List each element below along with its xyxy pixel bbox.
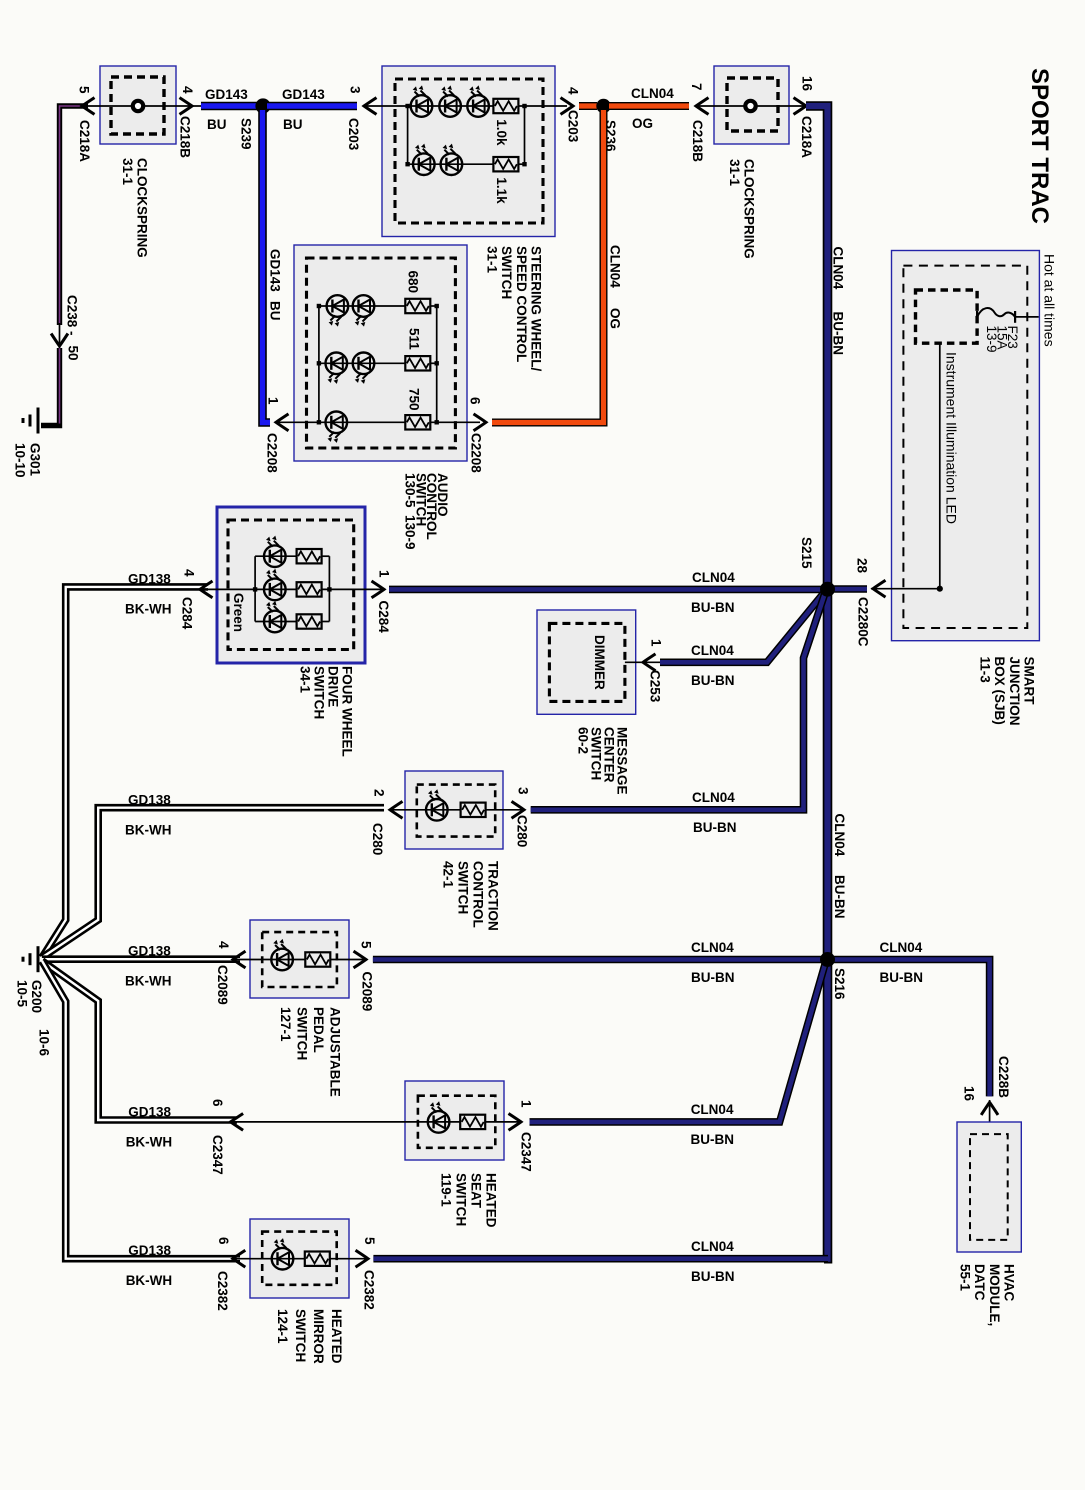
svg-text:BU-BN: BU-BN bbox=[831, 312, 846, 356]
smart junction box (SJB) bbox=[892, 251, 1040, 641]
svg-text:Instrument Illumination LED: Instrument Illumination LED bbox=[944, 352, 960, 524]
svg-text:1: 1 bbox=[649, 639, 664, 647]
svg-text:16: 16 bbox=[962, 1086, 977, 1102]
svg-text:SWITCH: SWITCH bbox=[293, 1309, 308, 1362]
wire GD138 BK-WH adjustable pedal switch to G200 bbox=[42, 955, 240, 963]
wire CLN04 BU-BN dimmer to S215 bbox=[660, 592, 825, 663]
steering switch internal wiring bbox=[407, 106, 409, 164]
svg-text:C238 -: C238 - bbox=[65, 295, 80, 336]
svg-text:FOUR WHEEL: FOUR WHEEL bbox=[340, 666, 355, 757]
LED lamp heated seat bbox=[428, 1111, 450, 1133]
wire through pedal switch bbox=[233, 959, 305, 961]
splice S215 bbox=[820, 582, 835, 597]
heated mirror switch box bbox=[250, 1219, 349, 1298]
svg-text:CLN04: CLN04 bbox=[880, 940, 923, 955]
connector C218B pin 7 bbox=[696, 98, 709, 115]
svg-text:CLN04: CLN04 bbox=[631, 86, 674, 101]
svg-text:BK-WH: BK-WH bbox=[125, 602, 172, 617]
svg-text:GD138: GD138 bbox=[128, 1243, 171, 1258]
connector C2347 pin 6 bbox=[231, 1114, 244, 1131]
connector C2347 pin 1 bbox=[509, 1114, 522, 1131]
LED lamp 4WD row2 bbox=[264, 579, 286, 601]
svg-text:1: 1 bbox=[519, 1100, 534, 1108]
connector C218A pin 5 bbox=[82, 98, 95, 115]
LED lamp steering row2 a bbox=[413, 153, 435, 175]
svg-text:BU: BU bbox=[268, 301, 283, 321]
connector C203 pin 4 bbox=[561, 98, 574, 115]
svg-text:60-2: 60-2 bbox=[576, 727, 591, 754]
wire through traction switch bbox=[390, 809, 461, 811]
clockspring coil symbol 2 bbox=[745, 101, 755, 111]
wire CLN04 OG stub C203 to S236 bbox=[579, 102, 597, 110]
LED lamp pedal bbox=[271, 949, 293, 971]
svg-text:6: 6 bbox=[210, 1099, 225, 1107]
wire into steering switch bbox=[364, 105, 408, 107]
resistor 750 bbox=[405, 415, 430, 429]
svg-text:C2089: C2089 bbox=[215, 965, 230, 1005]
resistor 1.0k bbox=[493, 99, 518, 113]
wire GD138 BK-WH traction control switch to G200 bbox=[42, 808, 384, 958]
wire CLN04 BU-BN traction switch to S215 bbox=[531, 592, 826, 810]
wire CLN04 BU-BN bus C218A down to S215 bbox=[806, 106, 828, 585]
svg-text:SWITCH: SWITCH bbox=[499, 246, 514, 299]
svg-text:BU-BN: BU-BN bbox=[691, 673, 735, 688]
svg-text:BU-BN: BU-BN bbox=[691, 1269, 735, 1284]
LED lamp steering row2 b bbox=[441, 153, 463, 175]
wire CLN04 BU-BN four wheel drive switch to S215 bbox=[389, 586, 824, 594]
svg-text:C2208: C2208 bbox=[469, 433, 484, 473]
resistor heated seat bbox=[460, 1115, 485, 1129]
svg-text:BK-WH: BK-WH bbox=[125, 823, 172, 838]
wire GD138 BK-WH heated seat switch to G200 bbox=[42, 961, 237, 1120]
wire CLN04 BU-BN heated seat switch to S216 bbox=[530, 963, 826, 1122]
svg-text:BU-BN: BU-BN bbox=[832, 875, 847, 919]
svg-text:SEAT: SEAT bbox=[469, 1173, 484, 1209]
connector C280 pin 2 bbox=[390, 801, 403, 818]
svg-text:1.0k: 1.0k bbox=[494, 119, 509, 146]
svg-text:C2208: C2208 bbox=[265, 433, 280, 473]
LED lamp audio rowA b bbox=[353, 295, 375, 317]
connector C2089 pin 4 bbox=[233, 951, 246, 968]
svg-text:C253: C253 bbox=[648, 670, 663, 703]
wire through clockspring 2 bbox=[696, 105, 806, 107]
svg-text:511: 511 bbox=[407, 328, 422, 350]
wire through clockspring 1 bbox=[82, 105, 201, 107]
wire GD143 BU drop S239 to audio switch C2208 bbox=[263, 110, 271, 423]
heated seat switch box bbox=[405, 1081, 504, 1160]
svg-text:HEATED: HEATED bbox=[329, 1309, 344, 1364]
svg-text:CLN04: CLN04 bbox=[691, 643, 734, 658]
svg-text:STEERING WHEEL/: STEERING WHEEL/ bbox=[529, 246, 544, 372]
connector C2089 pin 5 bbox=[354, 951, 367, 968]
LED lamp 4WD row3 bbox=[264, 611, 286, 633]
svg-text:SWITCH: SWITCH bbox=[456, 861, 471, 914]
svg-text:CLN04: CLN04 bbox=[831, 247, 846, 290]
svg-text:7: 7 bbox=[689, 83, 704, 91]
svg-text:6: 6 bbox=[216, 1237, 231, 1245]
svg-text:BU: BU bbox=[207, 117, 227, 132]
svg-text:SWITCH: SWITCH bbox=[295, 1007, 310, 1060]
adjustable pedal switch box bbox=[250, 920, 349, 998]
svg-text:HEATED: HEATED bbox=[484, 1173, 499, 1228]
svg-text:119-1: 119-1 bbox=[439, 1173, 454, 1207]
wire SJB fuse to instrument illumination LED node bbox=[939, 343, 941, 589]
splice S236 bbox=[596, 99, 610, 113]
LED lamp 4WD row1 bbox=[264, 545, 286, 567]
svg-text:C2280C: C2280C bbox=[856, 597, 871, 647]
svg-text:BU-BN: BU-BN bbox=[691, 970, 735, 985]
svg-text:DATC: DATC bbox=[972, 1264, 987, 1301]
svg-text:S216: S216 bbox=[832, 968, 847, 1000]
clockspring coil symbol 1 bbox=[133, 101, 143, 111]
four wheel drive switch internal wiring bbox=[200, 588, 297, 590]
svg-text:TRACTION: TRACTION bbox=[486, 861, 501, 931]
svg-text:CLN04: CLN04 bbox=[832, 814, 847, 857]
svg-text:G200: G200 bbox=[29, 980, 44, 1013]
connector C2208 pin 6 bbox=[474, 414, 487, 431]
steering wheel/speed control switch box bbox=[382, 66, 555, 237]
svg-text:50: 50 bbox=[66, 346, 81, 361]
LED lamp audio rowA a bbox=[327, 295, 349, 317]
connector C2382 pin 5 bbox=[356, 1250, 369, 1267]
svg-text:1: 1 bbox=[377, 570, 392, 578]
svg-text:4: 4 bbox=[216, 941, 231, 949]
svg-text:5: 5 bbox=[359, 941, 374, 949]
wire CLN04 BU-BN bus S215 to S216 bbox=[823, 589, 833, 960]
wire into HVAC module bbox=[989, 1100, 991, 1134]
svg-text:3: 3 bbox=[516, 787, 531, 795]
connector C2382 pin 6 bbox=[233, 1250, 246, 1267]
connector C218A pin 16 bbox=[794, 98, 807, 115]
svg-text:C203: C203 bbox=[566, 110, 581, 143]
svg-text:11-3: 11-3 bbox=[977, 657, 992, 684]
svg-text:55-1: 55-1 bbox=[957, 1264, 972, 1292]
wire GD138 BK-WH heated mirror switch to G200 bbox=[42, 961, 240, 1259]
svg-text:C203: C203 bbox=[346, 118, 361, 151]
node SJB internal junction bbox=[937, 586, 943, 592]
LED lamp traction bbox=[426, 799, 448, 821]
traction control switch box bbox=[405, 771, 503, 849]
svg-text:750: 750 bbox=[407, 388, 422, 411]
svg-text:5: 5 bbox=[362, 1237, 377, 1245]
svg-text:GD138: GD138 bbox=[128, 1105, 171, 1120]
svg-text:1.1k: 1.1k bbox=[494, 177, 509, 204]
resistor heated mirror bbox=[305, 1252, 330, 1266]
four wheel drive switch box bbox=[217, 507, 365, 663]
svg-text:28: 28 bbox=[855, 558, 870, 574]
splice S239 bbox=[255, 98, 270, 113]
svg-text:S239: S239 bbox=[239, 118, 254, 150]
svg-text:ADJUSTABLE: ADJUSTABLE bbox=[328, 1007, 343, 1097]
svg-text:OG: OG bbox=[632, 116, 653, 131]
wire GD143 BK-VT from C218A to G301 bbox=[60, 106, 89, 325]
svg-text:BU-BN: BU-BN bbox=[880, 970, 924, 985]
svg-text:CLOCKSPRING: CLOCKSPRING bbox=[135, 158, 150, 258]
message center switch box bbox=[537, 610, 636, 714]
wire through heated mirror switch bbox=[233, 1258, 305, 1260]
svg-text:31-1: 31-1 bbox=[484, 246, 499, 274]
svg-text:C228B: C228B bbox=[996, 1056, 1011, 1098]
svg-text:10-5: 10-5 bbox=[15, 980, 30, 1008]
connector C253 pin 1 bbox=[643, 654, 656, 671]
LED lamp steering row1 c bbox=[467, 95, 489, 117]
resistor 4WD row2 bbox=[297, 582, 322, 596]
LED lamp audio rowB b bbox=[353, 353, 375, 375]
svg-text:BK-WH: BK-WH bbox=[126, 1273, 173, 1288]
splice S216 bbox=[820, 952, 835, 967]
svg-text:4: 4 bbox=[182, 569, 197, 577]
svg-text:BU-BN: BU-BN bbox=[691, 600, 735, 615]
svg-text:C2382: C2382 bbox=[215, 1271, 230, 1311]
svg-text:13-9: 13-9 bbox=[984, 326, 999, 353]
svg-text:127-1: 127-1 bbox=[278, 1007, 293, 1042]
svg-text:OG: OG bbox=[608, 308, 623, 329]
svg-text:4: 4 bbox=[566, 87, 581, 95]
svg-text:31-1: 31-1 bbox=[727, 159, 742, 187]
svg-text:GD138: GD138 bbox=[128, 793, 171, 808]
wire CLN04 OG S236 to C218B bbox=[609, 102, 689, 110]
svg-text:C280: C280 bbox=[370, 823, 385, 855]
svg-text:CLOCKSPRING: CLOCKSPRING bbox=[742, 159, 757, 259]
HVAC module box bbox=[957, 1122, 1021, 1252]
svg-text:4: 4 bbox=[180, 86, 195, 94]
svg-text:124-1: 124-1 bbox=[275, 1309, 290, 1344]
connector C228B pin 16 bbox=[981, 1102, 998, 1115]
clockspring box 31-1 right bbox=[714, 66, 789, 144]
svg-text:GD143: GD143 bbox=[205, 87, 248, 102]
audio switch internal wiring bbox=[276, 421, 405, 423]
connector C284 pin 1 bbox=[372, 581, 385, 598]
svg-text:BK-WH: BK-WH bbox=[125, 974, 172, 989]
svg-text:BU-BN: BU-BN bbox=[693, 820, 737, 835]
svg-text:C284: C284 bbox=[376, 601, 391, 634]
svg-text:GD143: GD143 bbox=[268, 249, 283, 292]
svg-text:Hot at all times: Hot at all times bbox=[1042, 254, 1058, 347]
wire GD143 BU segment S239 to C203 bbox=[267, 102, 357, 111]
LED lamp heated mirror bbox=[272, 1248, 294, 1270]
svg-text:BOX (SJB): BOX (SJB) bbox=[992, 657, 1007, 725]
svg-text:10-6: 10-6 bbox=[37, 1029, 52, 1057]
wire GD143 BU segment C218B to S239 bbox=[201, 102, 259, 111]
svg-text:CLN04: CLN04 bbox=[692, 790, 735, 805]
resistor 511 bbox=[405, 356, 430, 370]
svg-text:MIRROR: MIRROR bbox=[311, 1309, 326, 1364]
svg-text:31-1: 31-1 bbox=[120, 158, 135, 186]
wire CLN04 BU-BN bus S216 down to heated mirror run bbox=[824, 960, 828, 1259]
wire CLN04 BU-BN heated mirror switch to S216 bus bbox=[373, 1255, 828, 1263]
svg-text:C2089: C2089 bbox=[360, 972, 375, 1012]
svg-text:GD138: GD138 bbox=[128, 944, 171, 959]
svg-text:G301: G301 bbox=[28, 443, 43, 477]
wire dimmer to C253 bbox=[625, 661, 660, 663]
connector C2280C pin 28 bbox=[873, 580, 886, 597]
ground G200 bbox=[37, 946, 40, 972]
svg-text:CLN04: CLN04 bbox=[692, 570, 735, 585]
wire CLN04 OG drop S236 to audio switch C2208 bbox=[492, 110, 604, 423]
svg-text:SWITCH: SWITCH bbox=[312, 666, 327, 719]
LED lamp audio rowB a bbox=[326, 353, 348, 375]
svg-text:DRIVE: DRIVE bbox=[326, 666, 341, 707]
svg-text:BK-WH: BK-WH bbox=[126, 1135, 173, 1150]
svg-text:1: 1 bbox=[266, 397, 281, 405]
connector C284 pin 4 bbox=[200, 581, 213, 598]
LED lamp audio rowC bbox=[326, 412, 348, 434]
svg-text:CLN04: CLN04 bbox=[608, 245, 623, 288]
clockspring box 31-1 left bbox=[100, 66, 176, 144]
svg-text:6: 6 bbox=[468, 397, 483, 405]
svg-text:42-1: 42-1 bbox=[441, 861, 456, 889]
resistor pedal bbox=[305, 952, 330, 966]
svg-text:CLN04: CLN04 bbox=[691, 1239, 734, 1254]
svg-text:DIMMER: DIMMER bbox=[592, 635, 607, 690]
wire GD138 BK-WH four wheel drive switch to G200 bbox=[42, 587, 208, 958]
svg-text:C218A: C218A bbox=[77, 120, 92, 162]
wire CLN04 BU-BN S215 to SJB bbox=[832, 585, 867, 593]
wire through heated seat switch bbox=[231, 1121, 461, 1123]
svg-text:PEDAL: PEDAL bbox=[311, 1007, 326, 1053]
LED lamp steering row1 b bbox=[439, 95, 461, 117]
connector C2208 pin 1 bbox=[276, 414, 289, 431]
svg-text:C284: C284 bbox=[180, 597, 195, 630]
svg-text:Green: Green bbox=[231, 593, 246, 632]
resistor traction bbox=[461, 803, 486, 817]
svg-text:HVAC: HVAC bbox=[1002, 1264, 1017, 1302]
svg-text:C218B: C218B bbox=[690, 120, 705, 162]
svg-text:CLN04: CLN04 bbox=[691, 940, 734, 955]
resistor 680 bbox=[405, 299, 430, 313]
svg-text:5: 5 bbox=[77, 86, 92, 94]
svg-text:CLN04: CLN04 bbox=[691, 1102, 734, 1117]
svg-text:C2347: C2347 bbox=[519, 1132, 534, 1172]
fuse F23 15A 13-9 bbox=[1015, 316, 1039, 318]
svg-text:S215: S215 bbox=[799, 537, 814, 569]
wire CLN04 BU-BN S216 to HVAC module bbox=[831, 960, 990, 1097]
svg-text:C218A: C218A bbox=[799, 116, 814, 158]
svg-text:BU: BU bbox=[283, 117, 303, 132]
wire CLN04 BU-BN pedal switch to S216 bbox=[373, 956, 824, 964]
svg-text:BU-BN: BU-BN bbox=[691, 1132, 735, 1147]
resistor 1.1k bbox=[493, 157, 518, 171]
svg-text:C218B: C218B bbox=[178, 116, 193, 158]
svg-text:C2382: C2382 bbox=[362, 1270, 377, 1310]
svg-text:130-5 130-9: 130-5 130-9 bbox=[403, 473, 418, 550]
svg-text:GD138: GD138 bbox=[128, 572, 171, 587]
svg-text:SPEED CONTROL: SPEED CONTROL bbox=[514, 246, 529, 362]
ground G301 bbox=[37, 408, 40, 434]
svg-text:3: 3 bbox=[348, 86, 363, 94]
svg-text:JUNCTION: JUNCTION bbox=[1007, 657, 1022, 726]
resistor 4WD row3 bbox=[297, 614, 322, 628]
svg-text:680: 680 bbox=[406, 271, 421, 294]
svg-text:C280: C280 bbox=[515, 815, 530, 847]
svg-text:16: 16 bbox=[800, 76, 815, 92]
LED lamp steering row1 a bbox=[411, 95, 433, 117]
svg-text:10-10: 10-10 bbox=[13, 443, 28, 478]
svg-text:CONTROL: CONTROL bbox=[471, 861, 486, 928]
svg-text:C2347: C2347 bbox=[210, 1135, 225, 1175]
audio control switch box bbox=[294, 245, 467, 461]
svg-text:SWITCH: SWITCH bbox=[454, 1173, 469, 1226]
resistor 4WD row1 bbox=[297, 549, 322, 563]
connector C203 pin 3 bbox=[364, 98, 377, 115]
svg-text:34-1: 34-1 bbox=[298, 666, 313, 694]
svg-text:SMART: SMART bbox=[1022, 657, 1037, 706]
svg-text:2: 2 bbox=[372, 789, 387, 797]
connector C280 pin 3 bbox=[512, 801, 525, 818]
svg-text:SPORT TRAC: SPORT TRAC bbox=[1026, 68, 1053, 224]
connector C238 pin 50 in-line bbox=[51, 334, 68, 347]
svg-text:GD143: GD143 bbox=[282, 87, 325, 102]
svg-text:MODULE,: MODULE, bbox=[987, 1264, 1002, 1326]
connector C218B pin 4 bbox=[180, 98, 193, 115]
